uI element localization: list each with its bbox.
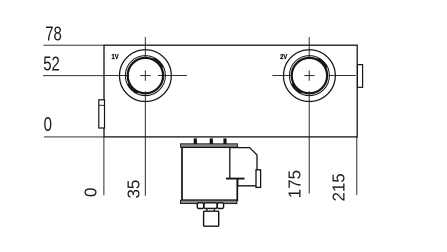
port circle 1 thread nub NE xyxy=(154,58,163,67)
solenoid pin 2 xyxy=(210,138,213,144)
svg-text:35: 35 xyxy=(123,180,144,199)
svg-text:1V: 1V xyxy=(112,54,120,62)
port circle 1 outer xyxy=(119,50,171,102)
nut left lobe xyxy=(197,203,203,209)
dimension line 0 level (left) xyxy=(44,136,105,138)
port circle 2 outer xyxy=(284,50,336,102)
svg-text:175: 175 xyxy=(284,170,305,198)
circle 2 horizontal centerline xyxy=(272,75,355,77)
neck between nut and knob xyxy=(207,209,214,212)
manual override knob xyxy=(204,211,219,226)
solenoid pin 3 xyxy=(223,138,226,144)
circle 1 horizontal centerline xyxy=(104,75,187,77)
svg-text:0: 0 xyxy=(44,113,52,136)
svg-text:0: 0 xyxy=(80,187,101,197)
svg-text:2V: 2V xyxy=(280,54,288,62)
nut middle lobe xyxy=(204,203,217,209)
dimension line 78 level xyxy=(44,44,106,46)
main valve block body xyxy=(104,45,357,137)
svg-text:78: 78 xyxy=(45,22,62,45)
circle 1 vertical centerline / 35 dimension line xyxy=(144,37,146,196)
left tab divider line xyxy=(99,104,105,106)
port circle 1 bore thick xyxy=(128,58,163,93)
coil top plate (gray) xyxy=(181,144,238,147)
solenoid pin 1 xyxy=(194,138,197,144)
svg-text:215: 215 xyxy=(328,173,349,201)
connector lower lip (thick ledge) xyxy=(226,178,245,180)
dimension line x=0 (bottom) xyxy=(103,137,105,195)
left tab on body xyxy=(99,100,105,128)
svg-text:52: 52 xyxy=(43,52,60,75)
solenoid coil body xyxy=(182,147,237,200)
DIN connector body xyxy=(230,148,257,186)
dimension line x=215 (bottom) xyxy=(356,137,358,195)
right tab on body xyxy=(357,65,362,88)
port circle 2 bore thick xyxy=(292,58,327,93)
dimension line 52 level xyxy=(43,75,105,77)
nut right lobe xyxy=(217,203,223,209)
connector cable gland tab xyxy=(256,170,261,188)
port circle 1 thread nub SW xyxy=(128,84,137,93)
port circle 2 thread nub NE xyxy=(318,58,327,67)
circle 2 vertical centerline / 175 dimension line xyxy=(308,37,310,193)
port circle 2 thread nub SW xyxy=(292,84,301,93)
port circle 1 counterbore thin xyxy=(125,56,165,96)
coil bottom band (gray) xyxy=(181,200,237,203)
port circle 2 counterbore thin xyxy=(289,56,329,96)
